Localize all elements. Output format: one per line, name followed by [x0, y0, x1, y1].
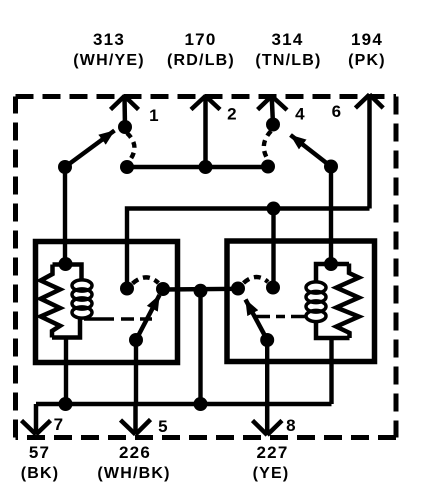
pin 2 terminal arrow: [191, 96, 220, 167]
wire label 226 (WH/BK): [97, 443, 170, 482]
switch throw arc at pin 1: [127, 133, 134, 161]
svg-text:7: 7: [54, 415, 65, 434]
resistor in left relay box: [41, 265, 61, 338]
junction dot right switch upper: [266, 281, 280, 295]
svg-text:1: 1: [149, 106, 160, 125]
armature arrow of pin-4 switch: [291, 135, 332, 167]
svg-text:(WH/YE): (WH/YE): [73, 52, 145, 69]
junction dot pin1 common: [118, 120, 132, 134]
junction dot left armature pivot: [58, 160, 72, 174]
svg-text:(YE): (YE): [253, 465, 290, 482]
junction dot pin2 on bus: [199, 160, 213, 174]
junction dot left armature lower: [129, 333, 143, 347]
svg-text:57: 57: [29, 443, 50, 462]
wire label 170 (RD/LB): [167, 30, 235, 69]
wire: middle bus down to ground bus: [198, 291, 202, 405]
wire label 227 (YE): [253, 443, 290, 482]
svg-text:227: 227: [257, 443, 289, 462]
svg-text:(WH/BK): (WH/BK): [97, 465, 170, 482]
wire: ground bus at y=404: [36, 402, 332, 406]
pin 7 terminal arrow: [22, 404, 51, 435]
armature arrow of pin-1 switch: [65, 131, 115, 168]
svg-text:314: 314: [272, 30, 304, 49]
svg-text:6: 6: [332, 102, 343, 121]
left box bottom bracket wire: [52, 318, 80, 338]
mechanical linkage dashed line in right box: [252, 315, 306, 319]
junction dot right armature lower: [260, 333, 274, 347]
junction dot right armature pivot: [324, 160, 338, 174]
svg-text:194: 194: [351, 30, 383, 49]
right relay box: [227, 241, 375, 362]
wire: right switch upper dot to y=208 bus: [271, 209, 275, 288]
wire: left armature pivot down to left coil top: [63, 167, 67, 264]
svg-text:8: 8: [286, 416, 297, 435]
svg-text:5: 5: [158, 417, 169, 436]
junction dot pin4 common: [266, 118, 280, 132]
junction dot right coil top: [324, 257, 338, 271]
armature arrow in right box: [246, 300, 268, 341]
junction dot ground bus left: [59, 397, 73, 411]
left box top bracket wire: [53, 265, 82, 281]
wire: right box armature to pin 8: [265, 340, 269, 404]
pin 5 terminal arrow: [121, 404, 151, 435]
wire: right armature pivot down to right coil top: [329, 167, 333, 265]
coil in left relay box: [72, 280, 92, 318]
wire: left box armature to pin 5: [134, 340, 138, 404]
dashed component outline border: [16, 97, 397, 438]
junction dot ground bus middle: [194, 397, 208, 411]
junction dot left switch upper: [120, 282, 134, 296]
svg-text:(TN/LB): (TN/LB): [255, 52, 321, 69]
junction dot right switch contact: [231, 282, 245, 296]
svg-text:170: 170: [185, 30, 217, 49]
mechanical linkage dashed line in left box: [84, 317, 153, 321]
svg-text:2: 2: [227, 105, 238, 124]
junction dot middle contact bus: [194, 284, 208, 298]
svg-text:(PK): (PK): [348, 52, 386, 69]
wire label 57 (BK): [21, 443, 60, 482]
wire label 313 (WH/YE): [73, 30, 145, 69]
svg-text:313: 313: [93, 30, 125, 49]
svg-text:226: 226: [119, 443, 151, 462]
wire: middle contact bus at y=290: [163, 287, 238, 292]
right box bottom bracket wire: [316, 321, 350, 338]
junction dot pin4 throw contact: [261, 160, 275, 174]
svg-text:(BK): (BK): [21, 465, 60, 482]
junction dot left coil top: [59, 257, 73, 271]
junction dot on y=208 bus: [267, 202, 281, 216]
switch throw arc at pin 4: [264, 131, 271, 161]
wire: pin6 bus at y=208 down to left switch: [127, 209, 370, 289]
resistor in right relay box: [336, 264, 359, 339]
junction dot pin1 throw contact: [120, 160, 134, 174]
switch throw arc in left box: [133, 277, 159, 283]
pin 6 terminal arrow: [355, 95, 383, 209]
wire: contact bus at y=166: [127, 165, 268, 169]
pin 4 terminal arrow: [258, 96, 287, 125]
pin 8 terminal arrow: [253, 404, 283, 435]
junction dot left switch contact: [156, 282, 170, 296]
pin 1 terminal arrow: [111, 96, 139, 127]
svg-text:4: 4: [295, 105, 306, 124]
svg-text:(RD/LB): (RD/LB): [167, 52, 235, 69]
right box top bracket wire: [316, 264, 349, 282]
switch throw arc in right box: [244, 277, 269, 283]
wire: right coil bottom to ground bus: [329, 338, 333, 404]
wire label 314 (TN/LB): [255, 30, 321, 69]
left relay box: [36, 242, 178, 363]
wire label 194 (PK): [348, 30, 386, 69]
armature arrow in left box: [136, 295, 160, 340]
wire: left coil bottom to ground bus: [64, 338, 68, 404]
coil in right relay box: [306, 282, 326, 322]
